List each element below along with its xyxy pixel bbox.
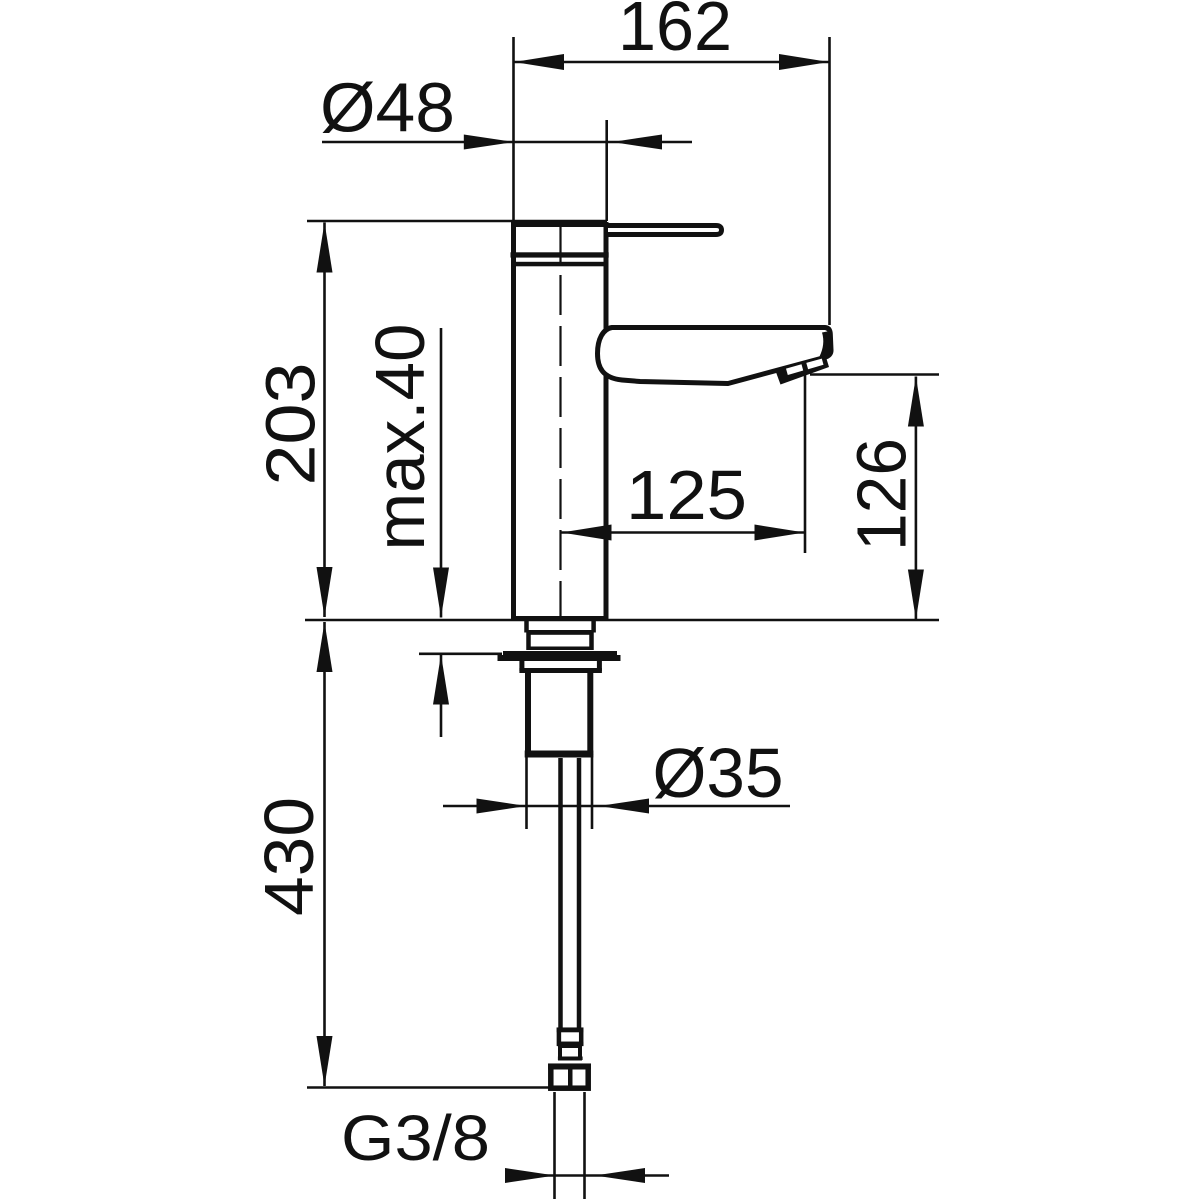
svg-text:162: 162 [618, 0, 732, 65]
svg-text:Ø48: Ø48 [320, 69, 455, 147]
svg-text:Ø35: Ø35 [653, 734, 784, 812]
svg-text:430: 430 [250, 797, 328, 916]
svg-text:max.40: max.40 [361, 324, 439, 551]
svg-text:126: 126 [843, 438, 921, 551]
svg-text:125: 125 [626, 456, 747, 534]
svg-text:203: 203 [252, 363, 330, 486]
svg-text:G3/8: G3/8 [341, 1102, 490, 1174]
